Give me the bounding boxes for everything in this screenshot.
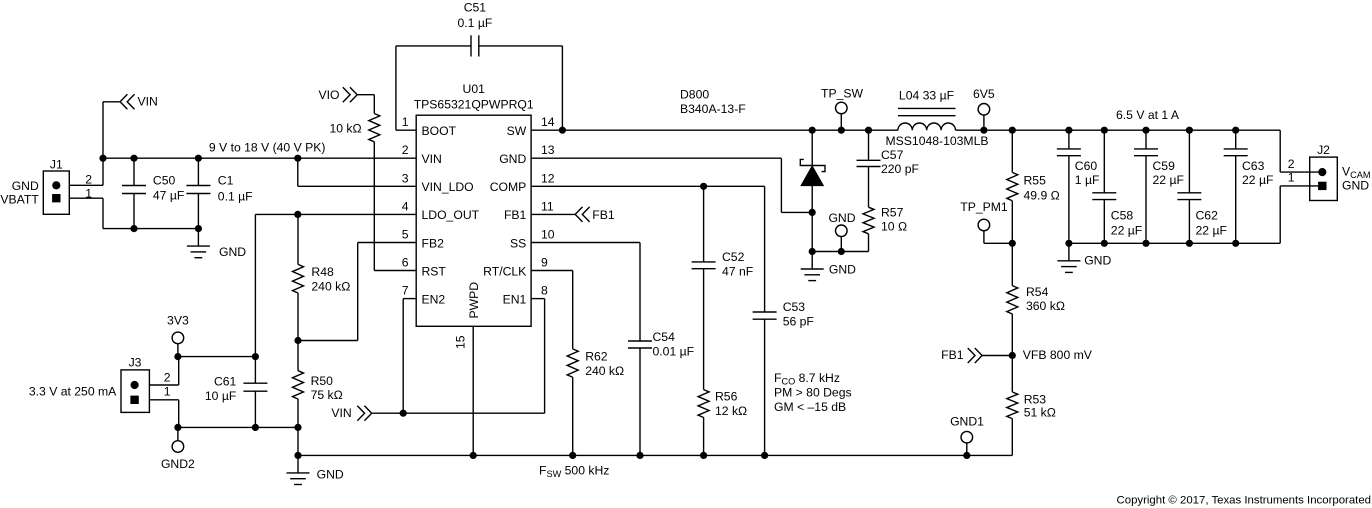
- svg-text:C50: C50: [153, 173, 176, 187]
- wire PWPD pin 15: [470, 326, 476, 458]
- label copyright: [1117, 494, 1371, 506]
- svg-text:D800: D800: [680, 88, 709, 102]
- label 9V to 18V: [209, 140, 326, 154]
- wire left ground rail: [178, 426, 298, 428]
- terminal 3V3: [167, 314, 189, 360]
- wire J1 ground rail: [103, 228, 198, 230]
- svg-text:GND: GND: [828, 211, 855, 225]
- svg-text:FB1: FB1: [941, 348, 964, 362]
- ground GND (diode anode): [801, 252, 856, 281]
- wire J3 pin1 to left rail: [149, 400, 180, 431]
- connector J3: [29, 356, 171, 413]
- svg-text:TP_SW: TP_SW: [821, 87, 863, 101]
- svg-text:SS: SS: [510, 236, 526, 250]
- svg-text:B340A-13-F: B340A-13-F: [680, 102, 746, 116]
- svg-text:VFB 800 mV: VFB 800 mV: [1023, 348, 1093, 362]
- svg-text:47 nF: 47 nF: [722, 264, 753, 278]
- svg-text:22 µF: 22 µF: [1111, 223, 1142, 237]
- svg-text:C62: C62: [1196, 209, 1219, 223]
- wire 3V3 node: [178, 356, 256, 358]
- svg-text:2: 2: [85, 172, 92, 186]
- capacitor C57: [857, 127, 919, 176]
- capacitor C54: [531, 243, 694, 459]
- svg-text:13: 13: [541, 143, 555, 157]
- wire EN1 net (pin 8): [531, 299, 545, 414]
- capacitor C50: [122, 155, 184, 231]
- svg-text:22 µF: 22 µF: [1196, 223, 1227, 237]
- wire R50 to ground rail: [295, 427, 301, 458]
- svg-text:R48: R48: [311, 265, 334, 279]
- wire FB2 net (pin 5): [298, 243, 416, 341]
- svg-text:VIN: VIN: [331, 406, 351, 420]
- svg-text:C1: C1: [218, 173, 234, 187]
- svg-text:7: 7: [402, 284, 409, 298]
- svg-text:BOOT: BOOT: [422, 124, 457, 138]
- wire SW rail: [562, 129, 898, 131]
- svg-text:1: 1: [402, 115, 409, 129]
- resistor R54: [1007, 243, 1065, 358]
- svg-text:EN1: EN1: [503, 292, 527, 306]
- svg-text:75 kΩ: 75 kΩ: [311, 388, 343, 402]
- svg-text:MSS1048-103MLB: MSS1048-103MLB: [886, 134, 989, 148]
- svg-text:FB1: FB1: [592, 208, 615, 222]
- wire VIN_LDO branch (pin 3): [295, 155, 416, 186]
- port FB1 (divider): [941, 348, 982, 363]
- port FB1 (pin 11): [531, 207, 615, 222]
- wire to J2 pin 2: [1280, 130, 1319, 172]
- svg-text:U01: U01: [463, 82, 486, 96]
- svg-text:49.9 Ω: 49.9 Ω: [1024, 188, 1060, 202]
- svg-text:51 kΩ: 51 kΩ: [1024, 405, 1056, 419]
- capacitor C1: [186, 155, 252, 231]
- svg-text:VIN_LDO: VIN_LDO: [422, 180, 474, 194]
- wire J3 pin2 to 3V3 node: [149, 357, 178, 385]
- label loop response: [774, 371, 852, 414]
- svg-text:R56: R56: [715, 390, 738, 404]
- svg-text:10 Ω: 10 Ω: [881, 220, 907, 234]
- svg-text:GND: GND: [219, 245, 246, 259]
- svg-text:47 µF: 47 µF: [153, 189, 184, 203]
- svg-text:240 kΩ: 240 kΩ: [585, 364, 624, 378]
- svg-text:C63: C63: [1242, 159, 1265, 173]
- label D800: [680, 88, 746, 117]
- test point GND (mid): [828, 211, 855, 255]
- svg-text:14: 14: [541, 115, 555, 129]
- test point TP_SW: [821, 87, 863, 133]
- svg-text:VIO: VIO: [319, 88, 340, 102]
- diode D800: [800, 127, 825, 254]
- resistor R53: [1007, 356, 1056, 456]
- port VIN (enable): [331, 406, 371, 421]
- terminal GND2: [161, 427, 195, 471]
- svg-text:220 pF: 220 pF: [881, 162, 919, 176]
- svg-text:GND: GND: [499, 152, 526, 166]
- svg-text:240 kΩ: 240 kΩ: [311, 280, 350, 294]
- svg-text:VIN: VIN: [422, 152, 442, 166]
- connector J2: [1288, 143, 1371, 201]
- svg-text:C57: C57: [881, 148, 904, 162]
- svg-text:1: 1: [1288, 171, 1295, 185]
- svg-text:22 µF: 22 µF: [1242, 173, 1273, 187]
- svg-text:PM > 80 Degs: PM > 80 Degs: [774, 386, 852, 400]
- svg-text:R57: R57: [881, 206, 904, 220]
- svg-text:5: 5: [402, 228, 409, 242]
- svg-text:0.1 µF: 0.1 µF: [218, 190, 253, 204]
- svg-text:12 kΩ: 12 kΩ: [715, 404, 747, 418]
- wire COMP net (pin 12): [531, 183, 765, 189]
- wire LDO_OUT net (pin 4): [253, 212, 417, 360]
- port VIO: [319, 87, 358, 102]
- wire FB1 to VFB node: [982, 355, 1012, 357]
- capacitor C63: [1224, 127, 1274, 246]
- svg-text:360 kΩ: 360 kΩ: [1026, 299, 1065, 313]
- capacitor C59: [1134, 127, 1184, 246]
- svg-text:TP_PM1: TP_PM1: [960, 200, 1008, 214]
- svg-text:22 µF: 22 µF: [1153, 173, 1184, 187]
- svg-text:SW: SW: [507, 124, 527, 138]
- svg-text:3: 3: [402, 171, 409, 185]
- svg-text:TPS65321QPWPRQ1: TPS65321QPWPRQ1: [414, 97, 534, 111]
- resistor R62: [531, 271, 624, 459]
- svg-text:C60: C60: [1075, 159, 1098, 173]
- wire GND net (pin 13): [531, 158, 812, 212]
- resistor R 10k (VIO pullup): [329, 95, 379, 271]
- capacitor C61: [205, 357, 268, 431]
- svg-text:R62: R62: [585, 350, 608, 364]
- wire J1 pin1 to ground rail: [69, 198, 103, 228]
- svg-text:C59: C59: [1153, 159, 1176, 173]
- svg-text:L04 33 µF: L04 33 µF: [899, 88, 954, 102]
- ground GND (output): [1057, 243, 1111, 272]
- terminal GND1: [950, 414, 984, 458]
- svg-text:GND: GND: [1342, 178, 1369, 192]
- wire to J2 pin 1: [1280, 186, 1319, 243]
- wire TP_PM1 to divider: [984, 242, 1012, 244]
- port VIN (top left): [120, 94, 158, 109]
- inductor L04: [886, 88, 989, 147]
- capacitor C60: [1057, 127, 1100, 246]
- wire SW stub (pin 14): [531, 127, 565, 133]
- svg-text:COMP: COMP: [490, 180, 527, 194]
- resistor R57: [863, 167, 907, 252]
- svg-text:VIN: VIN: [138, 95, 158, 109]
- svg-text:6V5: 6V5: [973, 87, 995, 101]
- capacitor C52: [692, 186, 754, 278]
- capacitor C58: [1092, 127, 1142, 246]
- svg-text:10: 10: [541, 228, 555, 242]
- capacitor C51: [396, 0, 563, 130]
- svg-text:3.3 V at 250 mA: 3.3 V at 250 mA: [29, 384, 117, 398]
- connector J1: [0, 158, 92, 215]
- ground GND (left): [287, 455, 344, 484]
- svg-text:R55: R55: [1024, 174, 1047, 188]
- svg-text:C52: C52: [722, 250, 745, 264]
- capacitor C62: [1177, 127, 1227, 246]
- wire J1 pin2 to VIN bus: [69, 102, 103, 186]
- svg-text:GND1: GND1: [950, 414, 984, 428]
- svg-text:3V3: 3V3: [167, 314, 189, 328]
- resistor R56: [698, 269, 747, 459]
- wire output rail: [956, 129, 1281, 131]
- svg-text:11: 11: [541, 199, 554, 213]
- svg-text:6: 6: [402, 256, 409, 270]
- svg-text:1: 1: [164, 385, 171, 399]
- svg-text:6.5 V at 1 A: 6.5 V at 1 A: [1116, 108, 1180, 122]
- svg-text:EN2: EN2: [422, 292, 446, 306]
- capacitor C53: [753, 186, 814, 458]
- svg-text:GND: GND: [317, 468, 344, 482]
- svg-text:C61: C61: [214, 374, 237, 388]
- svg-text:4: 4: [402, 199, 409, 213]
- label switching frequency: [539, 464, 609, 479]
- wire main ground rail: [298, 454, 1012, 456]
- svg-text:56 pF: 56 pF: [783, 315, 814, 329]
- svg-text:PWPD: PWPD: [467, 282, 481, 319]
- svg-text:GND2: GND2: [161, 457, 195, 471]
- wire RST net (pin 6): [374, 270, 416, 272]
- ground GND (under C1): [187, 229, 246, 260]
- svg-text:RST: RST: [422, 264, 447, 278]
- svg-text:0.1 µF: 0.1 µF: [458, 16, 493, 30]
- svg-text:VBATT: VBATT: [0, 193, 39, 207]
- wire R57 to diode anode: [812, 251, 868, 253]
- resistor R50: [293, 341, 343, 431]
- svg-text:0.01 µF: 0.01 µF: [653, 344, 695, 358]
- svg-text:Copyright © 2017, Texas Instru: Copyright © 2017, Texas Instruments Inco…: [1117, 494, 1371, 506]
- svg-text:FB1: FB1: [504, 208, 527, 222]
- svg-text:GND: GND: [12, 179, 39, 193]
- svg-text:RT/CLK: RT/CLK: [483, 264, 526, 278]
- svg-text:2: 2: [164, 370, 171, 384]
- svg-text:C58: C58: [1111, 209, 1134, 223]
- svg-text:2: 2: [402, 143, 409, 157]
- svg-text:J2: J2: [1317, 143, 1330, 157]
- wire VIN to EN1: [372, 412, 545, 414]
- wire EN2 net (pin 7): [400, 299, 416, 417]
- test point TP_PM1: [960, 200, 1008, 243]
- wire VIN bus: [100, 155, 416, 161]
- wire output ground rail: [1069, 242, 1280, 244]
- svg-text:9 V to 18 V (40 V PK): 9 V to 18 V (40 V PK): [209, 140, 326, 154]
- svg-text:15: 15: [454, 335, 468, 349]
- label VFB 800 mV: [1023, 348, 1093, 362]
- resistor R55: [1007, 127, 1060, 246]
- svg-text:C51: C51: [464, 0, 487, 14]
- svg-text:FB2: FB2: [422, 236, 445, 250]
- svg-text:GM < –15 dB: GM < –15 dB: [774, 400, 846, 414]
- svg-text:C54: C54: [653, 330, 676, 344]
- resistor R48: [293, 214, 351, 343]
- svg-text:12: 12: [541, 171, 555, 185]
- svg-text:R50: R50: [311, 374, 334, 388]
- svg-text:10 kΩ: 10 kΩ: [329, 121, 361, 135]
- op-amp U01 TPS65321QPWPRQ1: [402, 82, 555, 349]
- svg-text:GND: GND: [1084, 254, 1111, 268]
- svg-text:9: 9: [541, 256, 548, 270]
- label 6.5 V at 1 A: [1116, 108, 1180, 122]
- svg-text:J3: J3: [129, 356, 142, 370]
- svg-text:C53: C53: [783, 300, 806, 314]
- svg-text:R54: R54: [1026, 285, 1049, 299]
- node VIN arrow stub: [103, 101, 120, 103]
- svg-text:2: 2: [1288, 157, 1295, 171]
- svg-text:10 µF: 10 µF: [205, 389, 236, 403]
- svg-text:LDO_OUT: LDO_OUT: [422, 208, 480, 222]
- svg-text:8: 8: [541, 284, 548, 298]
- svg-text:GND: GND: [829, 263, 856, 277]
- svg-text:J1: J1: [50, 158, 63, 172]
- svg-text:1 µF: 1 µF: [1075, 173, 1100, 187]
- terminal 6V5: [973, 87, 995, 133]
